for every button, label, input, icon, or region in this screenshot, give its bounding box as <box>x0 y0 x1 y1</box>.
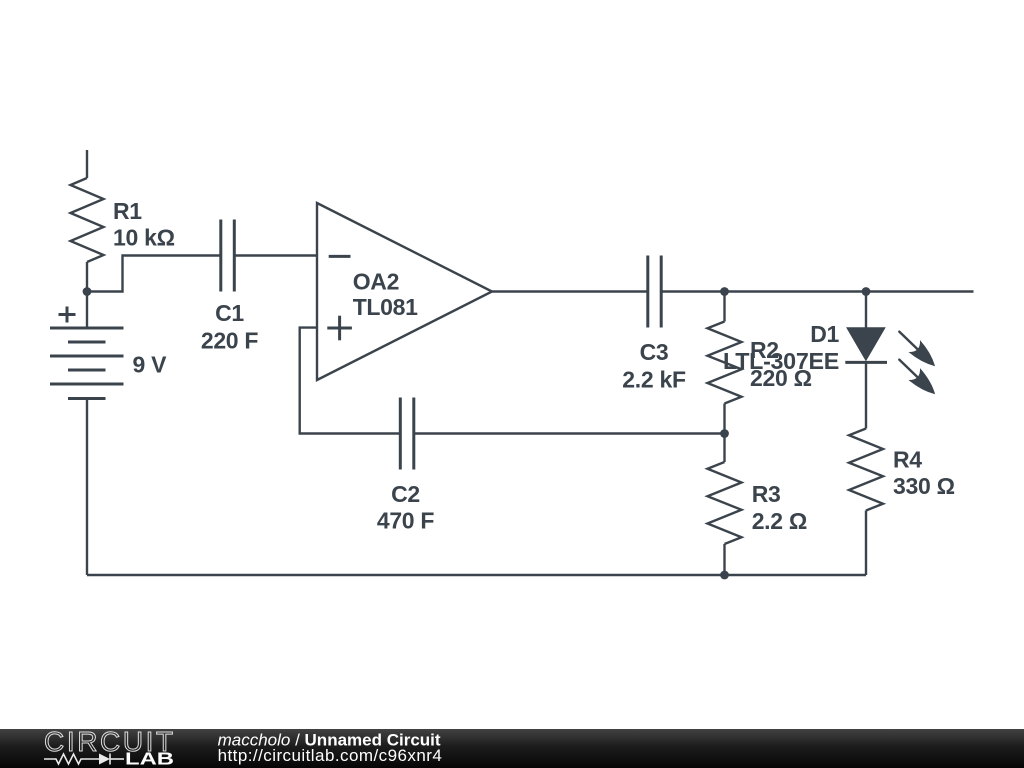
node junction C (output/R2) <box>720 287 729 296</box>
LED D1 anode lead <box>865 292 867 329</box>
wire op-amp non-inverting input to C2 <box>300 328 401 434</box>
resistor R4 bottom lead <box>865 511 867 576</box>
capacitor C1 right plate <box>233 220 236 292</box>
capacitor C2 right plate <box>412 398 415 470</box>
resistor R2 bottom lead <box>723 404 725 434</box>
svg-text:LAB: LAB <box>125 749 174 768</box>
node junction A (R1/battery/C1 wire) <box>83 287 92 296</box>
resistor R2 <box>708 322 742 404</box>
battery V1 positive lead <box>86 292 88 329</box>
resistor R3 <box>708 462 742 544</box>
wire R1 top stub <box>86 150 88 178</box>
logo diode symbol <box>99 754 110 765</box>
wire R1 bottom to node <box>86 262 88 292</box>
resistor R3 bottom lead <box>723 544 725 575</box>
battery V1 plates <box>50 327 124 330</box>
wire C1 to op-amp inverting input <box>234 254 317 256</box>
resistor R2 top lead <box>723 292 725 322</box>
wire node A to C1 <box>87 256 221 292</box>
wire LED cathode to R4 <box>865 362 867 428</box>
resistor R4 <box>849 429 883 511</box>
svg-text:http://circuitlab.com/c96xnr4: http://circuitlab.com/c96xnr4 <box>218 746 443 765</box>
battery V1 negative lead <box>86 399 88 576</box>
wire op-amp output to C3 <box>492 290 648 292</box>
capacitor C2 left plate <box>399 398 402 470</box>
op-amp U1 plus sign <box>327 327 352 330</box>
op-amp U1 triangle <box>317 203 492 380</box>
wire C3 to right end <box>661 290 973 292</box>
LED D1 light arrow 2 <box>894 354 941 401</box>
LED D1 light arrow 1 <box>894 326 941 373</box>
node junction D (output/LED D1) <box>862 287 871 296</box>
node junction B (C2/R2/R3) <box>720 429 729 438</box>
wire C2 to node B <box>414 432 725 434</box>
resistor R3 top lead <box>723 434 725 463</box>
logo resistor squiggle <box>44 754 99 764</box>
node junction E (bottom rail/R3) <box>720 571 729 580</box>
LED D1 triangle <box>847 328 885 361</box>
capacitor C3 right plate <box>660 256 663 328</box>
resistor R1 <box>71 178 104 262</box>
capacitor C3 left plate <box>646 256 649 328</box>
battery V1 plus sign <box>59 313 76 316</box>
capacitor C1 left plate <box>219 220 222 292</box>
op-amp U1 minus sign <box>329 255 351 258</box>
wire bottom rail <box>87 574 866 576</box>
LED D1 cathode bar <box>845 361 887 364</box>
